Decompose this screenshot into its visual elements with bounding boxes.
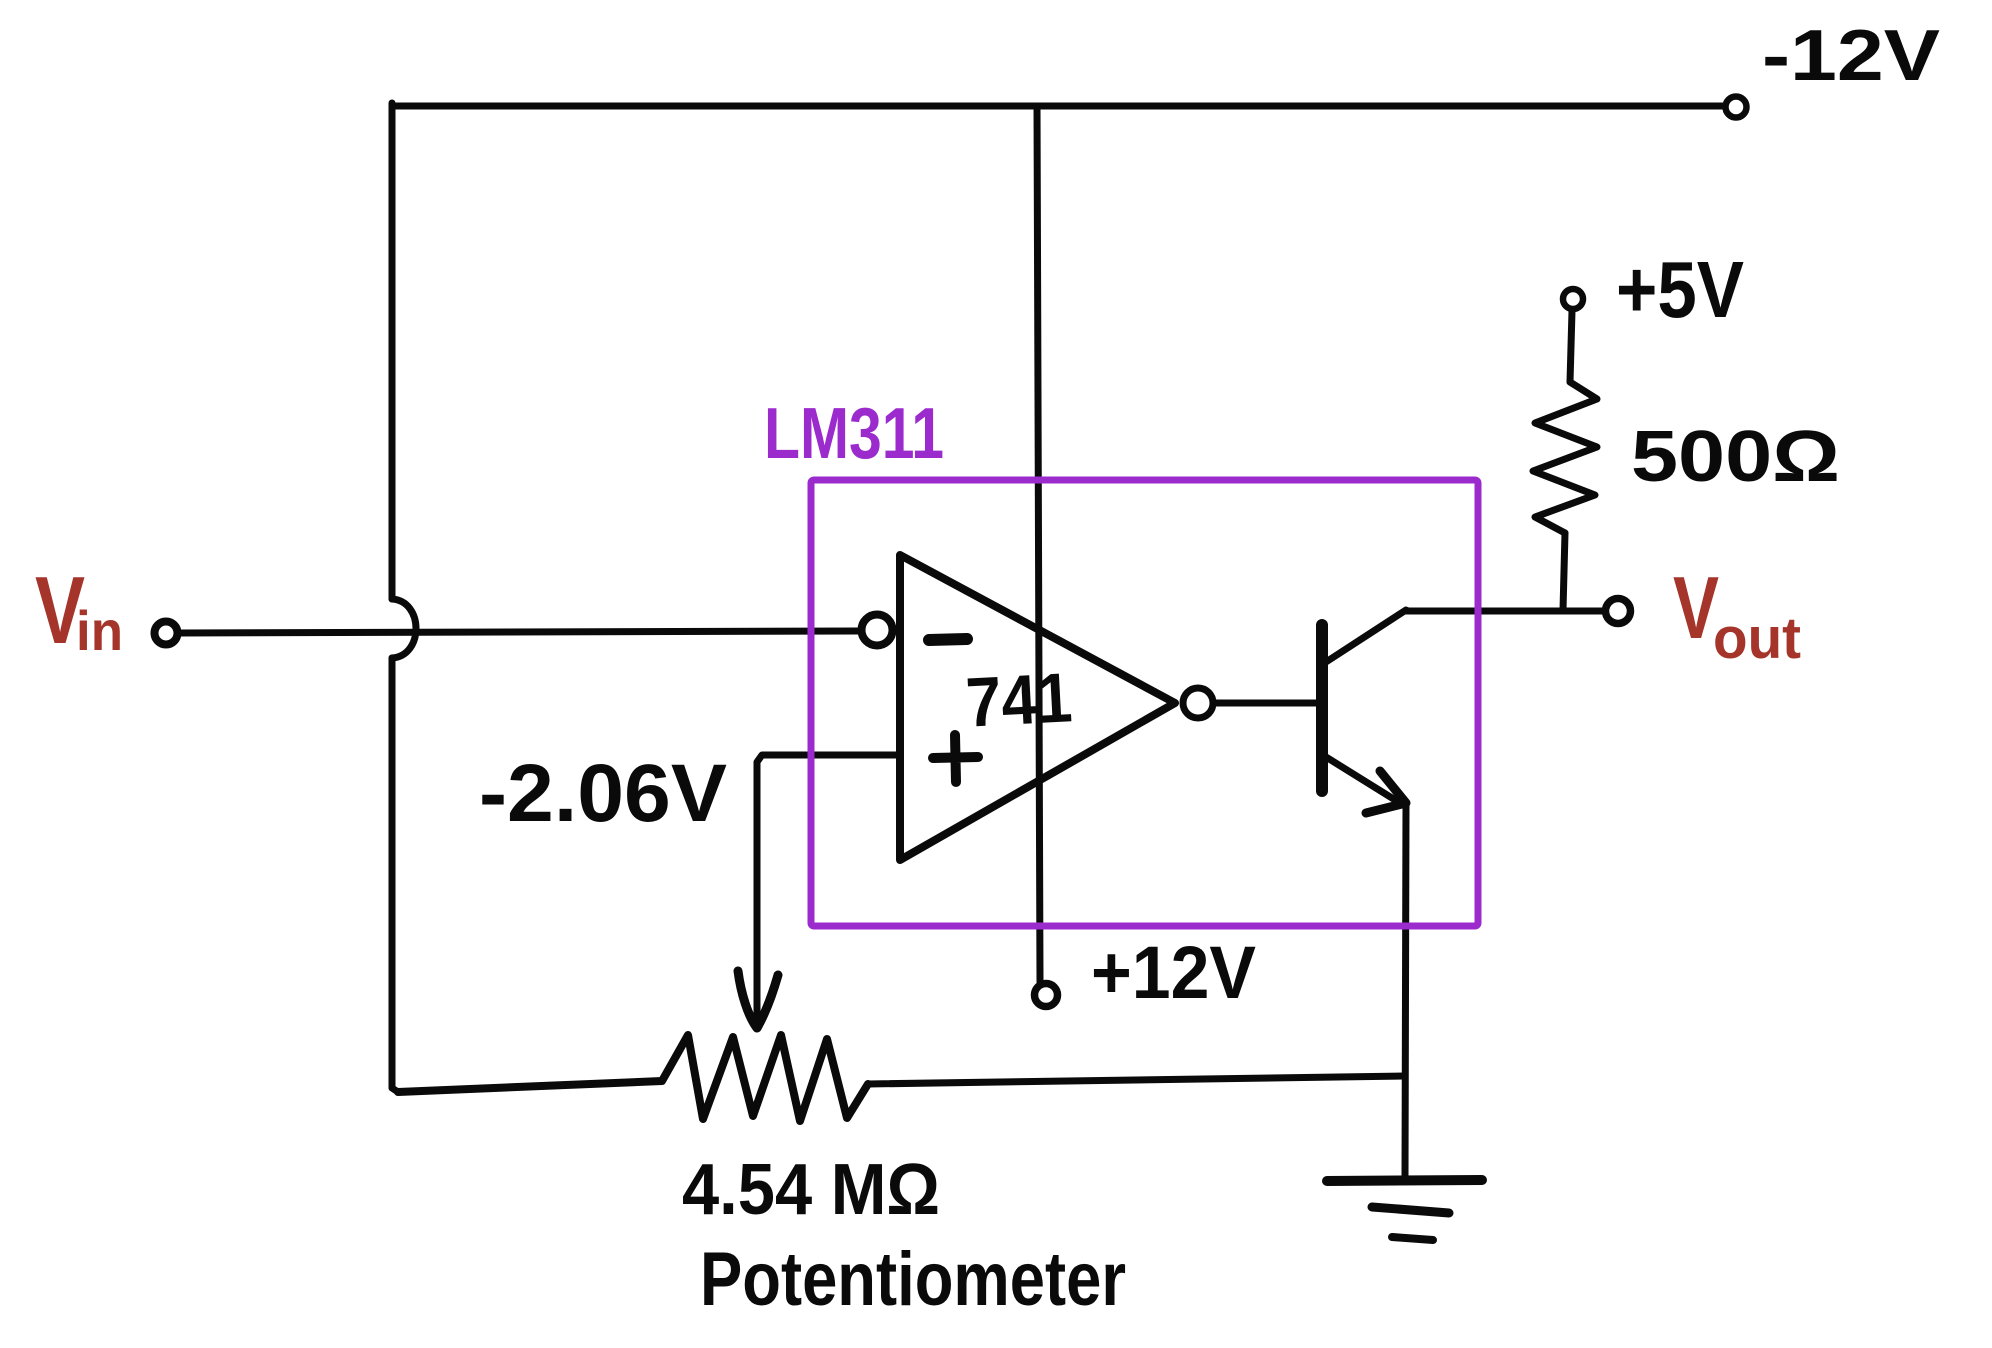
label plus (non-inverting input) — [933, 735, 978, 782]
resistor R1 500 ohm (vertical zigzag) — [1533, 382, 1597, 533]
op-amp inverting input bubble — [862, 615, 893, 646]
wire: +5V terminal to resistor R1 — [1570, 311, 1572, 382]
node Vout terminal — [1606, 599, 1631, 624]
wire: op-amp output to transistor base — [1214, 700, 1317, 707]
svg-text:+12V: +12V — [1091, 931, 1256, 1014]
hop: left rail hops over Vin wire — [392, 599, 416, 658]
transistor Q1 emitter arrowhead — [1366, 771, 1406, 813]
op-amp output bubble — [1183, 688, 1213, 718]
svg-text:LM311: LM311 — [764, 394, 944, 474]
wire: left rail upper segment — [389, 103, 396, 599]
wire: Vin to inverting input bubble — [179, 631, 858, 633]
svg-text:741: 741 — [964, 658, 1074, 741]
wiper arrowhead onto potentiometer — [738, 971, 778, 1028]
svg-text:out: out — [1713, 606, 1801, 671]
ground: bottom bar — [1392, 1237, 1433, 1240]
wire: potentiometer right lead to emitter/ground node — [868, 1076, 1405, 1084]
svg-text:4.54 MΩ: 4.54 MΩ — [682, 1150, 940, 1230]
svg-text:Potentiometer: Potentiometer — [700, 1237, 1126, 1322]
node +5V terminal — [1563, 289, 1583, 309]
transistor Q1 emitter — [1326, 757, 1400, 803]
wire: non-inverting input from -2.06V corner — [757, 755, 900, 1018]
wire: top rail from left corner to -12V terminal — [392, 103, 1723, 110]
svg-text:in: in — [76, 599, 123, 662]
wire: emitter down to ground — [1405, 803, 1406, 1177]
ground: top bar — [1327, 1180, 1482, 1181]
op-amp U1 741 triangle — [900, 555, 1175, 860]
wire: +12V rail vertical — [1037, 106, 1040, 982]
wire: resistor R1 to Vout node — [1563, 533, 1565, 610]
svg-text:500Ω: 500Ω — [1631, 417, 1840, 497]
transistor Q1 collector — [1326, 610, 1406, 662]
IC box LM311 — [811, 480, 1478, 926]
wire: left rail lower segment down to potentiometer — [392, 658, 398, 1092]
svg-text:-12V: -12V — [1762, 16, 1940, 96]
label minus (inverting input) — [929, 639, 967, 640]
transistor Q1 base bar — [1316, 625, 1328, 791]
node -12V terminal — [1726, 97, 1747, 118]
node Vin terminal — [155, 622, 178, 645]
node +12V terminal — [1035, 984, 1058, 1007]
svg-text:-2.06V: -2.06V — [479, 748, 727, 839]
svg-text:+5V: +5V — [1616, 245, 1744, 334]
potentiometer R2 body (zigzag) — [398, 1035, 868, 1121]
ground: middle bar — [1372, 1207, 1449, 1213]
wire: collector to Vout node — [1406, 608, 1603, 615]
